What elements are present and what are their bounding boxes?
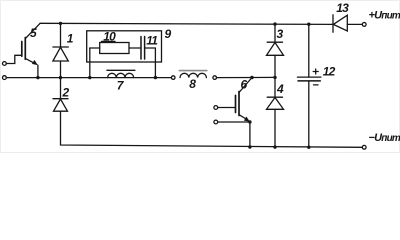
transistor 6 <box>218 78 252 148</box>
junction top diode 1 <box>59 22 62 25</box>
snubber box 9 <box>87 31 162 62</box>
junction box9 left <box>88 76 91 79</box>
wire middle rail right <box>217 76 276 78</box>
capacitor 11 <box>129 37 155 60</box>
diode 3 <box>267 24 284 77</box>
svg-text:13: 13 <box>336 1 349 15</box>
diode 2 <box>53 78 68 112</box>
capacitor 12 <box>297 24 321 147</box>
svg-text:10: 10 <box>103 30 116 44</box>
transistor 5 <box>6 23 40 77</box>
junction emitter 6 bottom <box>248 145 251 148</box>
junction diode 2 <box>59 76 62 79</box>
junction top capacitor 12 <box>307 23 310 26</box>
svg-text:11: 11 <box>146 33 158 47</box>
terminal +U <box>362 23 366 27</box>
svg-text:2: 2 <box>62 86 70 100</box>
inductor 8 <box>179 71 206 78</box>
diode 4 <box>267 77 284 146</box>
terminal emitter 5 <box>3 76 7 80</box>
terminal gate 6 <box>214 106 218 110</box>
diode 13 <box>333 15 362 32</box>
junction capacitor 12 bottom <box>307 146 310 149</box>
svg-text:12: 12 <box>323 65 336 79</box>
terminal gate 5 <box>3 62 7 66</box>
svg-text:+Uпит: +Uпит <box>369 10 400 22</box>
junction emitter 5 <box>36 76 39 79</box>
junction diode 4 bottom <box>273 145 276 148</box>
diode 1 <box>53 23 68 77</box>
terminal inductor 8 right <box>213 76 217 80</box>
junction collector 6 <box>250 76 253 79</box>
wire top rail <box>40 23 333 24</box>
label 10 underline <box>102 40 116 42</box>
inductor 7 <box>107 70 135 77</box>
terminal -U <box>362 145 366 149</box>
wire middle rail left <box>6 77 171 79</box>
junction diodes 3-4 <box>273 76 276 79</box>
wire bottom rail <box>61 111 363 147</box>
border frame <box>1 1 400 153</box>
svg-text:4: 4 <box>276 82 284 96</box>
resistor 10 <box>100 43 129 54</box>
terminal inductor 8 left <box>171 76 175 80</box>
junction box9 right <box>154 76 157 79</box>
junction top diode 3 <box>273 22 276 25</box>
wire box9 left leg <box>90 47 100 49</box>
terminal emitter 6 <box>214 120 218 124</box>
svg-text:−Uпит: −Uпит <box>369 132 400 144</box>
wire box9 right leg <box>154 48 156 78</box>
junction kelvin 6 <box>248 120 251 123</box>
